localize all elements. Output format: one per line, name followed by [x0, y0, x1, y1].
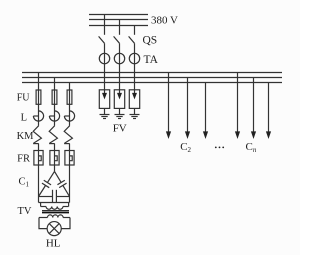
fuse FU phase b — [52, 90, 57, 104]
capacitor branch Cn phase 1 arrow — [235, 73, 240, 140]
discharge voltage transformer TV — [39, 203, 70, 218]
series reactor L phase b — [49, 104, 59, 125]
contactor KM main contact phase b — [49, 126, 57, 151]
capacitor branch C2 phase 2 arrow — [185, 78, 190, 140]
ground symbol under FV phase A — [100, 108, 110, 118]
surge arrester FV phase C — [129, 90, 139, 109]
main busbar L2 — [22, 77, 282, 79]
svg-text:TV: TV — [18, 206, 32, 217]
svg-text:L: L — [21, 113, 27, 124]
wire branch tap a from busbar — [38, 73, 40, 91]
disconnect switch QS pole B — [114, 36, 120, 53]
capacitor branch C2 phase 3 arrow — [203, 83, 208, 140]
capacitor bank C1 delta right side capacitor — [55, 171, 70, 196]
svg-text:HL: HL — [46, 238, 61, 250]
ellipsis dots — [215, 147, 224, 149]
wire phase C drop from 380V bus — [134, 26, 136, 35]
wire FR a down through delta corner to TV — [38, 165, 40, 203]
wire phase A drop from 380V bus — [104, 15, 106, 35]
contactor KM main contact phase c — [64, 126, 72, 151]
svg-text:QS: QS — [143, 34, 158, 46]
svg-text:FV: FV — [113, 122, 127, 134]
wire TA phase B to busbars and arrester — [119, 53, 121, 89]
capacitor bank C1 delta left side capacitor — [39, 171, 55, 196]
svg-text:380 V: 380 V — [151, 14, 178, 26]
thermal relay FR heater phase c — [65, 151, 74, 166]
svg-text:C2: C2 — [180, 141, 191, 154]
thermal relay FR heater phase a — [34, 151, 43, 166]
indicator lamp HL — [47, 222, 61, 236]
main busbar L1 — [22, 72, 282, 74]
main busbar L3 — [22, 82, 282, 84]
thermal relay FR heater phase b — [50, 151, 59, 166]
wire TA phase A to busbars and arrester — [104, 53, 106, 89]
wire TA phase C to busbars and arrester — [134, 53, 136, 89]
ground symbol under FV phase C — [130, 108, 140, 118]
svg-text:TA: TA — [144, 54, 159, 66]
capacitor branch C2 phase 1 arrow — [166, 73, 171, 140]
wire branch tap b from busbar — [54, 78, 56, 91]
wire phase B drop from 380V bus — [119, 20, 121, 35]
capacitor branch Cn phase 2 arrow — [251, 78, 256, 140]
fuse FU phase a — [36, 90, 41, 104]
current transformer TA phase C — [129, 53, 139, 63]
capacitor bank C1 delta bottom capacitor — [39, 190, 70, 202]
ground symbol under FV phase B — [115, 108, 125, 118]
surge arrester FV phase A — [99, 90, 109, 109]
series reactor L phase c — [64, 104, 74, 125]
wire branch tap c from busbar — [69, 83, 71, 91]
wire lamp loop left — [39, 218, 47, 229]
svg-text:FU: FU — [17, 92, 31, 103]
capacitor branch Cn phase 3 arrow — [266, 83, 271, 140]
series reactor L phase a — [33, 104, 43, 125]
svg-text:Cn: Cn — [246, 141, 257, 154]
current transformer TA phase A — [99, 53, 109, 63]
wire FR c down through delta corner to TV — [69, 165, 71, 203]
current transformer TA phase B — [114, 53, 124, 63]
svg-text:FR: FR — [17, 153, 30, 164]
wire lamp loop right — [61, 218, 70, 229]
node TV primary connection — [39, 202, 70, 204]
disconnect switch QS pole A — [99, 36, 105, 53]
380V supply busbars — [89, 15, 148, 26]
disconnect switch QS pole C — [129, 36, 135, 53]
wire FR b down to delta apex — [54, 165, 56, 171]
contactor KM main contact phase a — [33, 126, 41, 151]
svg-text:KM: KM — [17, 131, 35, 142]
surge arrester FV phase B — [114, 90, 124, 109]
svg-text:C1: C1 — [19, 177, 30, 189]
fuse FU phase c — [67, 90, 72, 104]
